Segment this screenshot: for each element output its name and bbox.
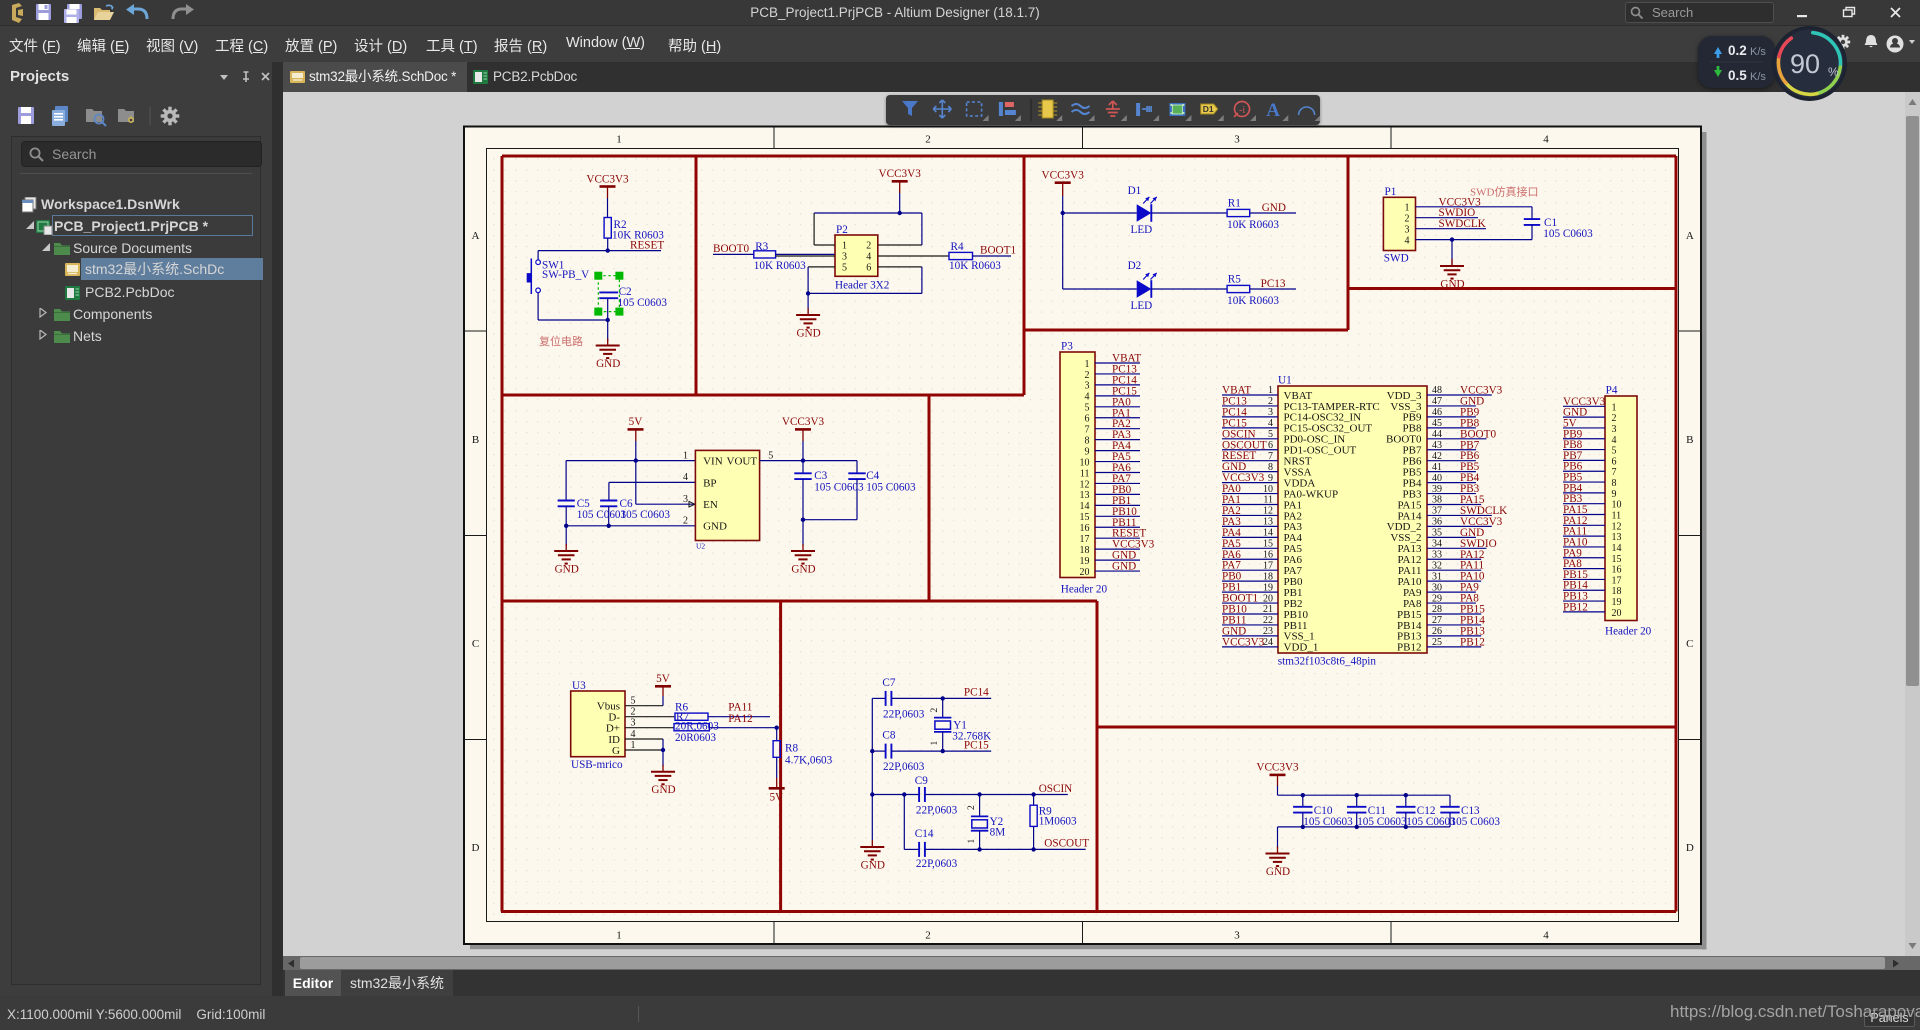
svg-text:44: 44 [1432,429,1442,440]
svg-text:6: 6 [1085,414,1090,425]
svg-text:22P,0603: 22P,0603 [883,761,925,773]
svg-text:GND: GND [1262,202,1286,214]
svg-text:D1: D1 [1128,185,1142,197]
svg-text:22P,0603: 22P,0603 [883,708,925,720]
svg-text:SWD: SWD [1384,252,1409,264]
svg-text:SWDCLK: SWDCLK [1439,218,1486,230]
svg-text:15: 15 [1080,512,1090,523]
svg-text:VCC3V3: VCC3V3 [879,168,922,180]
svg-text:K/s: K/s [1750,46,1766,58]
svg-text:38: 38 [1432,495,1442,506]
svg-text:29: 29 [1432,593,1442,604]
svg-text:GND: GND [791,564,815,576]
svg-text:BOOT0: BOOT0 [713,243,749,255]
svg-text:24: 24 [1263,637,1273,648]
svg-text:EN: EN [703,499,718,511]
svg-text:A: A [1686,230,1694,242]
svg-text:3: 3 [683,494,688,505]
svg-text:1: 1 [631,740,636,751]
svg-text:19: 19 [1263,582,1273,593]
svg-text:C14: C14 [915,828,934,840]
svg-text:VDD_1: VDD_1 [1284,642,1319,654]
svg-text:2: 2 [631,707,636,718]
svg-text:4: 4 [1543,930,1549,942]
svg-text:C4: C4 [866,470,879,482]
svg-text:3: 3 [1612,424,1617,435]
svg-text:10K R0603: 10K R0603 [1227,219,1279,231]
svg-text:3: 3 [1268,407,1273,418]
svg-text:BP: BP [703,477,716,489]
svg-text:90: 90 [1790,49,1820,79]
svg-text:C9: C9 [915,775,928,787]
svg-text:20R,0603: 20R,0603 [675,721,719,733]
svg-text:5V: 5V [769,791,783,803]
svg-text:105 C0603: 105 C0603 [1406,816,1456,828]
svg-text:B: B [1686,434,1693,446]
svg-text:R8: R8 [785,743,798,755]
svg-text:-i: -i [1239,105,1245,116]
svg-text:10K R0603: 10K R0603 [949,260,1001,272]
svg-text:22: 22 [1263,615,1273,626]
svg-text:43: 43 [1432,440,1442,451]
svg-text:2: 2 [683,516,688,527]
svg-text:11: 11 [1263,495,1273,506]
svg-text:31: 31 [1432,571,1442,582]
svg-text:6: 6 [866,263,871,274]
svg-text:2: 2 [925,134,931,146]
svg-text:4: 4 [866,252,871,263]
svg-text:U1: U1 [1278,375,1292,387]
svg-text:20R0603: 20R0603 [675,732,716,744]
svg-text:B: B [472,434,479,446]
svg-text:GND: GND [1266,866,1290,878]
svg-text:5: 5 [1268,429,1273,440]
svg-text:4: 4 [1612,435,1617,446]
svg-text:OSCIN: OSCIN [1039,783,1073,795]
svg-text:105 C0603: 105 C0603 [1543,228,1593,240]
svg-text:105 C0603: 105 C0603 [1303,816,1353,828]
svg-text:G: G [612,745,620,757]
svg-text:3: 3 [1234,930,1240,942]
svg-text:7: 7 [1085,425,1090,436]
svg-text:6: 6 [1612,456,1617,467]
svg-text:PB12: PB12 [1397,642,1421,654]
svg-text:5V: 5V [656,673,670,685]
svg-text:35: 35 [1432,528,1442,539]
svg-text:19: 19 [1080,556,1090,567]
svg-text:VCC3V3: VCC3V3 [1256,762,1299,774]
svg-text:34: 34 [1432,539,1442,550]
svg-text:1: 1 [842,241,847,252]
svg-text:VCC3V3: VCC3V3 [1222,636,1265,648]
svg-text:19: 19 [1612,597,1622,608]
svg-text:PB12: PB12 [1460,636,1485,648]
svg-text:GND: GND [651,784,675,796]
svg-text:2: 2 [967,805,977,810]
svg-text:4.7K,0603: 4.7K,0603 [785,754,833,766]
svg-text:20: 20 [1612,608,1622,619]
svg-text:VOUT: VOUT [727,455,758,467]
svg-text:5: 5 [631,696,636,707]
svg-text:39: 39 [1432,484,1442,495]
svg-text:10K R0603: 10K R0603 [1227,295,1279,307]
svg-text:5: 5 [842,263,847,274]
svg-text:A: A [472,230,480,242]
svg-text:47: 47 [1432,396,1442,407]
svg-text:OSCOUT: OSCOUT [1044,838,1089,850]
svg-text:C: C [472,638,479,650]
svg-text:32: 32 [1432,560,1442,571]
svg-text:23: 23 [1263,626,1273,637]
svg-text:11: 11 [1080,468,1090,479]
svg-text:PB12: PB12 [1563,601,1588,613]
svg-text:C12: C12 [1417,805,1436,817]
svg-text:21: 21 [1263,604,1273,615]
svg-text:8: 8 [1085,435,1090,446]
svg-text:1: 1 [967,839,977,844]
svg-text:15: 15 [1612,554,1622,565]
svg-text:Y1: Y1 [953,720,967,732]
svg-text:RESET: RESET [630,239,664,251]
svg-text:14: 14 [1080,501,1090,512]
svg-text:9: 9 [1612,489,1617,500]
svg-text:GND: GND [1440,279,1464,291]
svg-text:GND: GND [1112,561,1136,573]
svg-text:10K R0603: 10K R0603 [754,260,806,272]
svg-text:17: 17 [1263,560,1273,571]
svg-text:1: 1 [930,741,940,746]
svg-text:5V: 5V [629,416,643,428]
svg-text:12: 12 [1612,521,1622,532]
svg-text:2: 2 [925,930,931,942]
svg-text:D+: D+ [606,723,620,735]
svg-text:3: 3 [1234,134,1240,146]
svg-text:1: 1 [616,930,622,942]
svg-text:PC15: PC15 [964,740,989,752]
svg-text:stm32f103c8t6_48pin: stm32f103c8t6_48pin [1278,656,1377,668]
svg-text:LED: LED [1131,300,1153,312]
svg-text:7: 7 [1268,451,1273,462]
svg-text:P1: P1 [1385,186,1397,198]
svg-text:1: 1 [616,134,622,146]
svg-text:28: 28 [1432,604,1442,615]
svg-text:VCC3V3: VCC3V3 [586,173,629,185]
svg-text:0.5: 0.5 [1728,68,1747,83]
svg-text:10: 10 [1080,457,1090,468]
svg-text:10: 10 [1263,484,1273,495]
svg-text:105 C0603: 105 C0603 [618,297,668,309]
svg-text:C7: C7 [882,677,895,689]
svg-text:40: 40 [1432,473,1442,484]
svg-text:1: 1 [1085,359,1090,370]
svg-text:25: 25 [1432,637,1442,648]
svg-text:10: 10 [1612,500,1622,511]
svg-text:41: 41 [1432,462,1442,473]
svg-text:GND: GND [596,358,620,370]
svg-text:18: 18 [1612,586,1622,597]
svg-text:%: % [1828,65,1839,79]
svg-text:1: 1 [1612,402,1617,413]
svg-text:6: 6 [1268,440,1273,451]
svg-text:C13: C13 [1461,805,1480,817]
svg-text:GND: GND [703,521,727,533]
svg-text:D2: D2 [1128,260,1142,272]
svg-text:C10: C10 [1314,805,1333,817]
svg-text:8: 8 [1612,478,1617,489]
svg-text:5: 5 [1612,446,1617,457]
svg-text:105 C0603: 105 C0603 [1451,816,1501,828]
svg-text:PA11: PA11 [728,701,752,713]
svg-text:27: 27 [1432,615,1442,626]
svg-text:0.2: 0.2 [1728,43,1747,58]
svg-text:11: 11 [1612,511,1622,522]
svg-text:1M0603: 1M0603 [1039,816,1077,828]
svg-text:4: 4 [631,729,636,740]
svg-text:C: C [1686,638,1693,650]
svg-text:105 C0603: 105 C0603 [621,509,671,521]
svg-text:22P,0603: 22P,0603 [916,858,958,870]
svg-text:20: 20 [1263,593,1273,604]
svg-text:13: 13 [1263,517,1273,528]
svg-text:18: 18 [1080,545,1090,556]
svg-text:48: 48 [1432,385,1442,396]
svg-text:16: 16 [1080,523,1090,534]
svg-text:13: 13 [1080,490,1090,501]
svg-text:2: 2 [1612,413,1617,424]
svg-text:2: 2 [1085,370,1090,381]
svg-text:A: A [1266,100,1280,121]
svg-text:U2: U2 [696,541,705,550]
svg-text:46: 46 [1432,407,1442,418]
svg-text:14: 14 [1612,543,1622,554]
svg-text:R4: R4 [951,241,964,253]
svg-text:3: 3 [631,718,636,729]
svg-text:16: 16 [1263,549,1273,560]
svg-text:1: 1 [1268,385,1273,396]
svg-text:R1: R1 [1228,198,1241,210]
svg-text:GND: GND [796,328,820,340]
svg-text:PA12: PA12 [728,713,752,725]
svg-text:3: 3 [1085,381,1090,392]
svg-text:Header 20: Header 20 [1605,626,1652,638]
svg-text:45: 45 [1432,418,1442,429]
svg-text:37: 37 [1432,506,1442,517]
svg-text:C3: C3 [814,470,827,482]
svg-text:D1: D1 [1203,104,1214,114]
svg-text:3: 3 [842,252,847,263]
svg-text:8M: 8M [990,827,1006,839]
svg-text:12: 12 [1263,506,1273,517]
svg-text:4: 4 [1085,392,1090,403]
svg-text:3: 3 [1405,224,1410,235]
svg-text:PC13: PC13 [1261,278,1286,290]
svg-text:GND: GND [555,564,579,576]
svg-text:Header 20: Header 20 [1061,584,1108,596]
svg-text:15: 15 [1263,539,1273,550]
svg-text:2: 2 [930,708,940,713]
svg-text:VCC3V3: VCC3V3 [1042,170,1085,182]
svg-text:105 C0603: 105 C0603 [866,481,916,493]
svg-text:105 C0603: 105 C0603 [814,481,864,493]
svg-text:4: 4 [1543,134,1549,146]
svg-text:36: 36 [1432,517,1442,528]
svg-text:42: 42 [1432,451,1442,462]
svg-text:33: 33 [1432,549,1442,560]
svg-text:GND: GND [861,860,885,872]
svg-text:BOOT1: BOOT1 [980,244,1016,256]
svg-text:2: 2 [1405,213,1410,224]
svg-text:8: 8 [1268,462,1273,473]
svg-text:LED: LED [1131,224,1153,236]
svg-text:4: 4 [1268,418,1273,429]
svg-text:26: 26 [1432,626,1442,637]
svg-text:2: 2 [1268,396,1273,407]
svg-text:USB-mrico: USB-mrico [571,759,623,771]
svg-text:P2: P2 [836,224,848,236]
svg-text:4: 4 [1405,235,1410,246]
svg-text:5: 5 [1085,403,1090,414]
svg-text:17: 17 [1612,575,1622,586]
svg-text:P4: P4 [1606,384,1618,396]
svg-text:2: 2 [866,241,871,252]
svg-text:Header 3X2: Header 3X2 [835,280,889,292]
svg-text:22P,0603: 22P,0603 [916,804,958,816]
svg-text:4: 4 [683,472,688,483]
svg-text:5: 5 [768,450,773,461]
svg-text:P3: P3 [1061,340,1073,352]
svg-text:20: 20 [1080,567,1090,578]
svg-text:1: 1 [683,450,688,461]
svg-text:D: D [1686,842,1694,854]
svg-text:9: 9 [1085,446,1090,457]
svg-text:18: 18 [1263,571,1273,582]
svg-text:SW-PB_V: SW-PB_V [542,269,589,281]
svg-text:PC14: PC14 [964,687,989,699]
svg-text:C8: C8 [882,730,895,742]
svg-text:16: 16 [1612,565,1622,576]
svg-text:C11: C11 [1368,805,1386,817]
svg-text:VIN: VIN [703,455,723,467]
svg-text:9: 9 [1268,473,1273,484]
svg-text:K/s: K/s [1750,71,1766,83]
svg-text:13: 13 [1612,532,1622,543]
svg-text:14: 14 [1263,528,1273,539]
svg-text:12: 12 [1080,479,1090,490]
svg-text:复位电路: 复位电路 [539,334,583,348]
svg-text:D: D [472,842,480,854]
svg-text:17: 17 [1080,534,1090,545]
svg-text:VCC3V3: VCC3V3 [782,416,825,428]
svg-text:7: 7 [1612,467,1617,478]
svg-text:1: 1 [1405,203,1410,214]
svg-text:R5: R5 [1228,274,1241,286]
svg-text:105 C0603: 105 C0603 [1357,816,1407,828]
svg-text:30: 30 [1432,582,1442,593]
svg-text:SWD仿真接口: SWD仿真接口 [1470,184,1538,198]
svg-text:105 C0603: 105 C0603 [577,509,627,521]
svg-text:U3: U3 [572,680,586,692]
svg-text:R3: R3 [755,241,768,253]
